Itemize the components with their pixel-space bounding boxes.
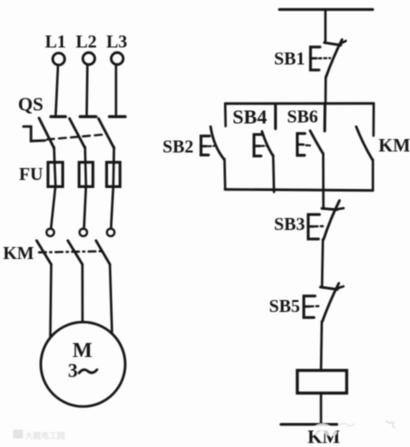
- pushbutton SB1 actuator E: [311, 47, 321, 70]
- wire KM coil to bottom rail: [320, 393, 322, 424]
- wire L1 terminal to QS: [56, 66, 58, 115]
- pushbutton SB2 (NO start) top stub: [224, 104, 227, 127]
- QS blade pole 3: [99, 119, 115, 149]
- QS blade pole 2: [70, 119, 86, 149]
- QS fixed contact bar pole 2: [80, 115, 96, 118]
- svg-text:SB4: SB4: [233, 107, 267, 129]
- KM main contact blade pole 1: [37, 241, 52, 265]
- wire SB1 to parallel box: [324, 77, 327, 104]
- KM auxiliary contact moving contact: [356, 127, 372, 160]
- wire QS to FU pole 1: [54, 147, 56, 186]
- wire FU to KM contact pole 3: [111, 186, 113, 228]
- terminal circle L3: [111, 53, 123, 65]
- KM main contact terminal circle pole 2: [80, 229, 88, 237]
- pushbutton SB6 actuator dashed link: [306, 144, 311, 146]
- pushbutton SB1 contact bridge tick: [341, 41, 346, 44]
- svg-text:SB6: SB6: [287, 107, 318, 127]
- wire SB5 to KM coil: [320, 322, 323, 371]
- pushbutton SB2 actuator dashed link: [209, 145, 215, 147]
- pushbutton SB5 actuator dashed link: [311, 305, 319, 307]
- svg-text:KM: KM: [3, 243, 34, 263]
- QS operating handle: [24, 127, 46, 142]
- wire SB2 to bottom rail: [223, 159, 226, 189]
- wire KM aux to bottom rail: [372, 160, 374, 191]
- KM main contact blade pole 2: [68, 241, 83, 265]
- fuse FU pole 2: [79, 162, 93, 186]
- wire SB6 to bottom rail and SB3: [322, 153, 325, 208]
- QS fixed contact bar pole 3: [109, 115, 125, 118]
- KM auxiliary contact top stub: [372, 103, 375, 135]
- pushbutton SB5 moving contact: [322, 283, 339, 321]
- svg-text:3: 3: [68, 361, 78, 382]
- pushbutton SB1 actuator dashed link: [319, 57, 330, 59]
- svg-text:QS: QS: [18, 95, 43, 116]
- svg-text:KM: KM: [379, 137, 410, 157]
- pushbutton SB5 actuator E: [304, 296, 315, 318]
- faint mark right: [386, 421, 395, 428]
- pushbutton SB5 (NC stop) fixed contact bar: [320, 287, 337, 289]
- svg-text:SB3: SB3: [274, 214, 305, 234]
- pushbutton SB3 moving contact: [324, 201, 340, 240]
- pushbutton SB4 actuator dashed link: [262, 145, 268, 147]
- wire FU to KM contact pole 2: [84, 186, 86, 228]
- svg-text:FU: FU: [19, 164, 43, 184]
- pushbutton SB3 contact bridge tick: [337, 208, 343, 209]
- wire KM to motor pole 2: [81, 264, 83, 322]
- KM coil: [297, 370, 346, 393]
- pushbutton SB2 actuator E: [201, 136, 210, 155]
- KM main contact terminal circle pole 1: [47, 229, 55, 237]
- pushbutton SB4 moving contact: [262, 132, 273, 156]
- svg-text:SB5: SB5: [269, 296, 300, 316]
- pushbutton SB6 actuator E: [297, 134, 305, 156]
- wire KM to motor pole 3: [110, 264, 112, 332]
- terminal circle L2: [83, 53, 95, 65]
- pushbutton SB1 (NC stop) fixed contact bar: [324, 43, 341, 46]
- QS gang linkage dashed line: [47, 135, 104, 140]
- terminal circle L1: [53, 53, 65, 65]
- pushbutton SB3 actuator E: [308, 215, 319, 240]
- QS fixed contact bar pole 1: [51, 115, 66, 118]
- pushbutton SB4 (NO start) top stub: [274, 104, 277, 128]
- wire QS to FU pole 2: [85, 147, 86, 186]
- svg-text:L2: L2: [76, 32, 97, 52]
- faint scan squiggle near bottom KM: [339, 424, 354, 426]
- QS blade pole 1: [39, 118, 54, 148]
- KM main contact terminal circle pole 3: [107, 229, 115, 237]
- pushbutton SB3 actuator dashed link: [316, 225, 324, 227]
- wire SB4 to bottom rail: [272, 156, 275, 193]
- svg-text:大概电工网: 大概电工网: [25, 431, 65, 441]
- wire L2 terminal to QS: [85, 65, 88, 115]
- svg-text:SB2: SB2: [163, 137, 194, 157]
- pushbutton SB6 moving contact: [310, 131, 323, 154]
- pushbutton SB6 (NO start) top stub: [323, 104, 326, 132]
- parallel branch bottom rail: [225, 189, 373, 190]
- wire QS to FU pole 3: [112, 147, 115, 186]
- pushbutton SB3 (NC stop) fixed contact bar: [322, 208, 337, 209]
- fuse FU pole 1: [48, 162, 63, 186]
- fuse FU pole 3: [107, 162, 120, 186]
- KM gang linkage dash-dot line: [39, 251, 103, 252]
- KM main contact blade pole 3: [96, 241, 110, 265]
- svg-text:M: M: [73, 338, 93, 362]
- svg-text:SB1: SB1: [274, 49, 305, 69]
- pushbutton SB4 actuator E: [254, 135, 262, 157]
- control circuit top rail: [279, 8, 372, 11]
- wire SB3 to SB5: [321, 239, 324, 287]
- wire top rail to SB1: [324, 10, 326, 44]
- wire KM to motor pole 1: [49, 264, 52, 336]
- control circuit bottom rail: [281, 423, 337, 426]
- pushbutton SB1 moving contact: [326, 40, 342, 77]
- pushbutton SB5 contact bridge tick: [337, 286, 343, 288]
- parallel branch top rail: [225, 102, 373, 105]
- svg-text:L1: L1: [45, 32, 66, 52]
- wire L3 terminal to QS: [115, 65, 117, 115]
- motor M circle: [41, 322, 125, 406]
- svg-text:L3: L3: [106, 32, 127, 52]
- wire FU to KM contact pole 1: [51, 186, 56, 228]
- pushbutton SB2 moving contact: [211, 127, 224, 160]
- scan erosion blobs over bottom KM: [314, 424, 338, 437]
- watermark: [13, 430, 65, 441]
